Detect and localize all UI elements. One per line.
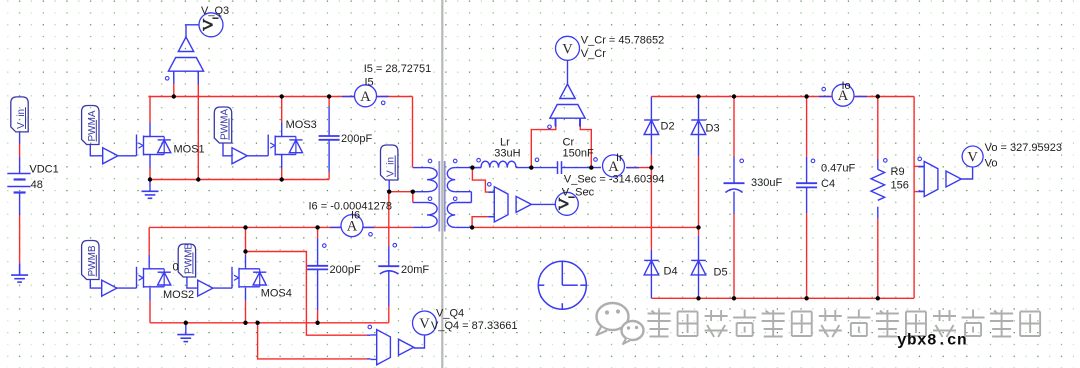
svg-text:V: V xyxy=(419,316,430,332)
svg-text:D3: D3 xyxy=(706,123,720,135)
svg-text:I5 = 28.72751: I5 = 28.72751 xyxy=(364,63,432,75)
svg-text:VDC1: VDC1 xyxy=(29,163,58,175)
svg-text:150nF: 150nF xyxy=(563,148,594,160)
svg-text:156: 156 xyxy=(891,180,909,192)
svg-text:Ir: Ir xyxy=(616,152,623,164)
svg-text:33uH: 33uH xyxy=(494,148,520,160)
svg-text:MOS2: MOS2 xyxy=(163,289,194,301)
svg-text:I6: I6 xyxy=(351,209,360,221)
svg-text:0.47uF: 0.47uF xyxy=(821,163,856,175)
svg-text:V_Cr: V_Cr xyxy=(581,48,606,60)
svg-text:200pF: 200pF xyxy=(330,264,361,276)
svg-text:MOS3: MOS3 xyxy=(286,119,317,131)
svg-text:V_Q4: V_Q4 xyxy=(436,308,464,320)
svg-text:0: 0 xyxy=(173,262,179,274)
svg-text:V_Cr = 45.78652: V_Cr = 45.78652 xyxy=(581,35,664,47)
svg-text:R9: R9 xyxy=(891,166,905,178)
svg-text:D2: D2 xyxy=(661,121,675,133)
svg-text:A: A xyxy=(360,89,371,105)
svg-text:V_Sec = -314.60394: V_Sec = -314.60394 xyxy=(564,174,665,186)
svg-text:330uF: 330uF xyxy=(751,177,782,189)
svg-text:MOS4: MOS4 xyxy=(261,288,292,300)
svg-text:200pF: 200pF xyxy=(341,133,372,145)
svg-text:48: 48 xyxy=(31,179,43,191)
svg-text:D4: D4 xyxy=(664,266,678,278)
svg-text:V_Q3: V_Q3 xyxy=(201,5,229,17)
svg-text:I5: I5 xyxy=(365,77,374,89)
svg-text:MOS1: MOS1 xyxy=(174,144,205,156)
svg-text:V_Sec: V_Sec xyxy=(562,187,595,199)
svg-text:V: V xyxy=(562,41,573,57)
svg-text:20mF: 20mF xyxy=(401,264,429,276)
svg-text:Io: Io xyxy=(842,80,851,92)
svg-text:C4: C4 xyxy=(821,178,835,190)
svg-text:D5: D5 xyxy=(714,267,728,279)
svg-text:ybx8.cn: ybx8.cn xyxy=(897,332,967,350)
svg-text:V_Q4 = 87.33661: V_Q4 = 87.33661 xyxy=(431,320,518,332)
svg-text:Vo = 327.95923: Vo = 327.95923 xyxy=(985,142,1062,154)
svg-text:V: V xyxy=(967,150,978,166)
svg-text:Vo: Vo xyxy=(985,157,998,169)
